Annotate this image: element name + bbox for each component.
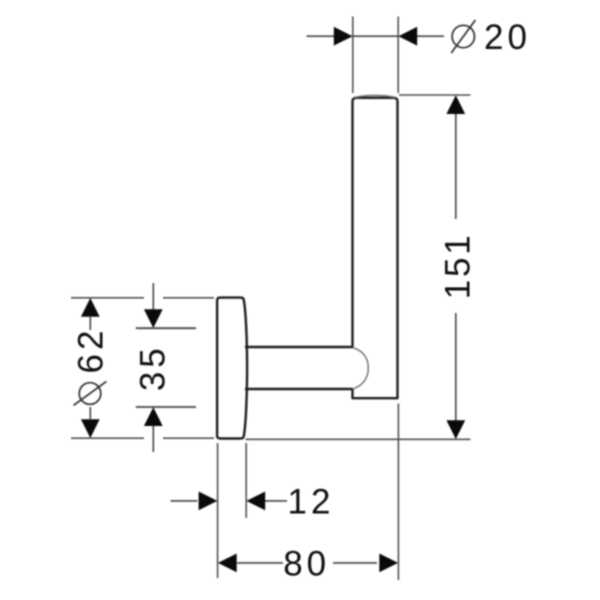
dia62 dimension line stubs — [89, 317, 91, 419]
dia62 extension line top — [71, 297, 214, 299]
35 arrow up (below bottom line) — [144, 407, 163, 426]
tube top dome arc — [354, 95, 396, 97]
dia62 arrow up — [81, 298, 100, 317]
80 dimension line — [237, 562, 377, 564]
svg-text:35: 35 — [134, 344, 173, 391]
151 arrow down — [446, 420, 465, 439]
12 arrow left-pointing — [246, 492, 265, 511]
35 boundary line bottom — [136, 406, 196, 408]
dia20 extension line left — [352, 17, 354, 94]
svg-text:20: 20 — [484, 18, 531, 57]
151 extension line bottom — [246, 438, 471, 440]
dia62 extension line bottom — [71, 437, 214, 439]
svg-text:62: 62 — [72, 327, 111, 374]
12 extension line right — [245, 443, 247, 518]
80 extension line right — [397, 404, 399, 581]
151 extension line top — [399, 94, 471, 96]
35 boundary line top — [136, 327, 196, 329]
35 arrow down (above top line) — [144, 309, 163, 328]
dia20 dimension line — [307, 35, 445, 37]
151 dimension line — [455, 114, 457, 421]
dia62 arrow down — [81, 419, 100, 438]
svg-text:12: 12 — [288, 483, 335, 522]
tube body outline — [353, 98, 398, 398]
svg-text:80: 80 — [283, 545, 330, 584]
80 arrow right-pointing — [379, 554, 398, 573]
12 arrow right-pointing — [199, 492, 218, 511]
12 dimension line — [171, 500, 288, 502]
arm bottom edge — [245, 388, 353, 390]
dia62 diameter symbol rotated — [74, 381, 107, 405]
dia20 arrow right-pointing — [334, 27, 353, 46]
wall plate outline — [217, 298, 247, 439]
dia20 arrow left-pointing — [398, 27, 417, 46]
80 arrow left-pointing — [218, 554, 237, 573]
svg-text:151: 151 — [439, 233, 478, 300]
dia20 extension line right — [397, 17, 399, 94]
dia20 diameter symbol — [451, 20, 475, 53]
arm top edge — [245, 346, 353, 348]
12 extension line left (shared with 80) — [217, 443, 219, 578]
151 arrow up — [446, 95, 465, 114]
35 dimension line overshoots — [152, 283, 154, 452]
tube bend fillet curve — [353, 348, 369, 389]
